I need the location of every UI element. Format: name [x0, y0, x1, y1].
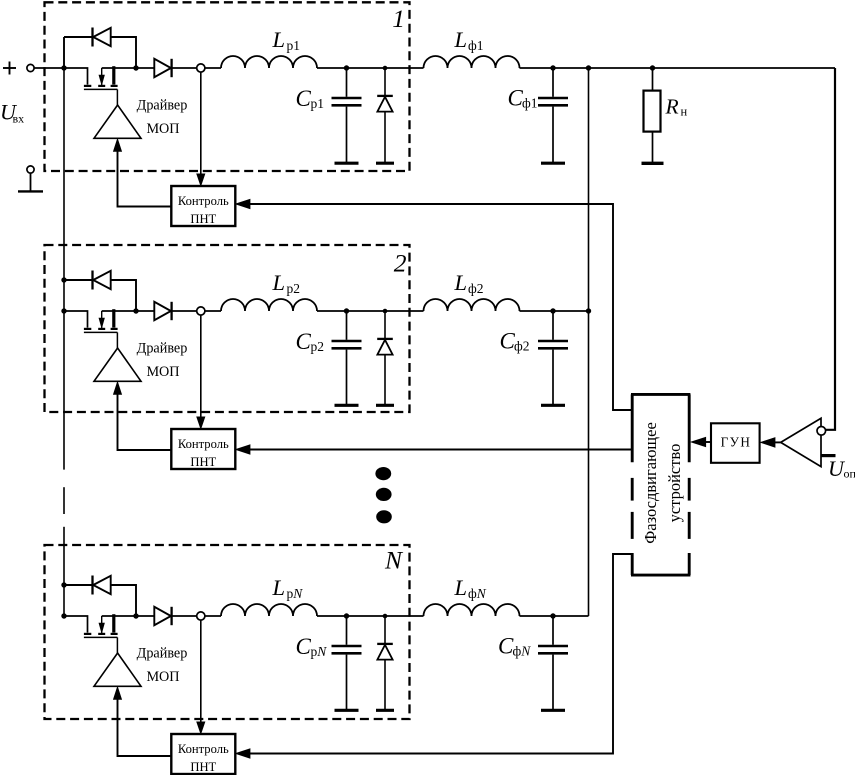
- label Cр2: [296, 329, 325, 354]
- svg-text:ф1: ф1: [468, 38, 484, 53]
- capacitor Cр1: [332, 68, 362, 163]
- capacitor Cф3: [538, 616, 568, 710]
- junction shunt diode top cell 2: [383, 309, 388, 314]
- wire source lead cell 3: [64, 616, 88, 633]
- wire comparator output to VCO: [761, 438, 781, 447]
- wire source lead cell 2: [64, 311, 88, 328]
- inductor Lф2 coil: [424, 299, 520, 311]
- svg-text:1: 1: [392, 4, 405, 33]
- label Драйвер МОП cell 3: [137, 646, 188, 686]
- capacitor Cр3: [332, 616, 362, 710]
- svg-text:ф1: ф1: [522, 96, 538, 111]
- wire cell 3 to filter inductor: [317, 615, 424, 617]
- svg-text:L: L: [272, 575, 286, 600]
- wire drain segment cell 2: [102, 310, 155, 312]
- wire phase shifter to control cell 2: [236, 445, 631, 454]
- svg-text:н: н: [681, 105, 688, 119]
- MOSFET driver amplifier cell 2: [94, 348, 141, 381]
- junction output bus cell 1: [586, 65, 591, 70]
- label Драйвер МОП cell 1: [137, 98, 188, 138]
- node switch output cell 1: [197, 64, 205, 72]
- label Lф1: [454, 27, 484, 53]
- resistor Rн: [642, 68, 664, 163]
- wire input bus vertical segment 1: [63, 68, 65, 470]
- input terminal plus sign: [3, 62, 16, 75]
- wire node to control cell 3: [197, 620, 205, 733]
- shunt diode VD2c: [376, 311, 394, 405]
- ellipsis continuation dots: [375, 467, 391, 523]
- wire node to control cell 2: [197, 315, 205, 428]
- svg-text:ф2: ф2: [514, 339, 530, 354]
- label Cф3: [498, 634, 531, 659]
- junction Cр2 top: [344, 308, 349, 313]
- control box Контроль ПНТ cell 2: [171, 429, 235, 469]
- MOSFET driver amplifier cell 1: [94, 105, 141, 138]
- label Драйвер МОП cell 2: [137, 341, 188, 381]
- junction flyback-drain cell 3: [133, 613, 138, 618]
- wire phase shifter to control cell 3: [236, 554, 631, 758]
- svg-text:р2: р2: [311, 339, 325, 354]
- svg-text:Драйвер: Драйвер: [137, 646, 188, 662]
- svg-text:C: C: [296, 86, 312, 111]
- junction input node cell 1: [61, 65, 66, 70]
- junction flyback-drain cell 1: [133, 65, 138, 70]
- wire flyback loop cell 3: [64, 585, 136, 616]
- phase shifter box Фазосдвигающее устройство: [631, 394, 690, 575]
- wire drain segment cell 3: [102, 615, 155, 617]
- label устройство: [665, 444, 684, 523]
- flyback diode VD1a: [93, 28, 111, 47]
- svg-text:МОП: МОП: [146, 121, 179, 137]
- wire input bus vertical segment 2: [63, 527, 65, 616]
- svg-text:р2: р2: [287, 281, 301, 296]
- label Lр1: [272, 27, 301, 53]
- svg-text:ПНТ: ПНТ: [190, 455, 216, 469]
- junction Cф1 top: [550, 65, 555, 70]
- junction bus-flyback cell 2: [61, 308, 66, 313]
- wire cell 2 to filter inductor: [317, 310, 424, 312]
- svg-text:ПНТ: ПНТ: [190, 760, 216, 774]
- wire node to control cell 1: [197, 72, 205, 185]
- label Lф2: [454, 270, 484, 296]
- node switch output cell 3: [197, 612, 205, 620]
- svg-text:МОП: МОП: [146, 669, 179, 685]
- svg-text:рN: рN: [287, 586, 304, 601]
- comparator inverting bubble: [817, 427, 826, 436]
- control box Контроль ПНТ cell 1: [171, 186, 235, 226]
- wire driver feed cell 2: [114, 382, 172, 450]
- svg-text:L: L: [272, 270, 286, 295]
- svg-text:ПНТ: ПНТ: [190, 212, 216, 226]
- shunt diode VD3c: [376, 616, 394, 710]
- junction Cр1 top: [344, 65, 349, 70]
- converter cell 1 dashed enclosure: [45, 2, 410, 171]
- svg-text:N: N: [384, 546, 404, 575]
- junction load resistor top: [650, 65, 655, 70]
- svg-text:рN: рN: [311, 644, 328, 659]
- wire node to inductor cell 1: [205, 67, 221, 69]
- wire diode to node cell 2: [172, 310, 197, 312]
- svg-text:L: L: [454, 575, 468, 600]
- junction shunt diode top cell 1: [383, 66, 388, 71]
- svg-text:ГУН: ГУН: [721, 434, 752, 449]
- capacitor Cф2: [538, 311, 568, 405]
- inductor Lр2 coil: [221, 299, 317, 311]
- svg-text:фN: фN: [513, 644, 532, 659]
- svg-text:2: 2: [394, 249, 407, 278]
- wire source lead cell 1: [64, 68, 88, 85]
- junction flyback-drain cell 2: [133, 308, 138, 313]
- series diode VD1b: [154, 59, 171, 77]
- wire drain segment cell 1: [102, 67, 155, 69]
- junction output bus cell 2: [586, 308, 591, 313]
- svg-text:Контроль: Контроль: [178, 742, 229, 756]
- svg-text:фN: фN: [468, 586, 487, 601]
- svg-text:оп: оп: [844, 467, 855, 481]
- svg-text:Фазосдвигающее: Фазосдвигающее: [641, 422, 660, 544]
- wire flyback loop cell 1: [64, 37, 136, 68]
- junction Cф3 top: [550, 613, 555, 618]
- flyback diode VD2a: [93, 271, 111, 290]
- label cell number N: [384, 546, 404, 575]
- capacitor Cф1: [538, 68, 568, 163]
- label Cф1: [508, 86, 538, 111]
- label Фазосдвигающее: [641, 422, 660, 544]
- converter cell 2 dashed enclosure: [45, 245, 410, 412]
- wire flyback loop cell 2: [64, 280, 136, 311]
- svg-text:ф2: ф2: [468, 281, 484, 296]
- wire input to bus: [34, 67, 64, 69]
- label Cр3: [296, 634, 328, 659]
- svg-text:C: C: [296, 329, 312, 354]
- wire input bus break segment: [63, 487, 65, 514]
- svg-text:МОП: МОП: [146, 364, 179, 380]
- wire driver feed cell 1: [114, 139, 172, 206]
- label Cф2: [500, 329, 530, 354]
- comparator reference input pin: [821, 454, 836, 457]
- wire diode to node cell 3: [172, 615, 197, 617]
- ground terminal circle: [27, 166, 34, 173]
- wire VCO to phase shifter: [692, 437, 712, 446]
- svg-text:Драйвер: Драйвер: [137, 341, 188, 357]
- label Uоп: [828, 456, 855, 481]
- svg-text:L: L: [454, 27, 468, 52]
- ground: [18, 173, 43, 191]
- control box Контроль ПНТ cell 3: [171, 734, 235, 774]
- node switch output cell 2: [197, 307, 205, 315]
- wire filter inductor to bus cell 3: [520, 615, 589, 617]
- MOSFET VT3: [84, 614, 118, 653]
- capacitor Cр2: [332, 311, 362, 405]
- svg-text:Контроль: Контроль: [178, 437, 229, 451]
- label cell number 1: [392, 4, 405, 33]
- label Cр1: [296, 86, 325, 111]
- label cell number 2: [394, 249, 407, 278]
- wire cell 1 to filter inductor: [317, 67, 424, 69]
- svg-text:р1: р1: [287, 38, 301, 53]
- label Uвх: [0, 100, 24, 126]
- svg-text:Драйвер: Драйвер: [137, 98, 188, 114]
- inductor Lф3 coil: [424, 604, 520, 616]
- inductor Lф1 coil: [424, 56, 520, 68]
- wire feedback right rail: [826, 68, 835, 430]
- wire node to inductor cell 2: [205, 310, 221, 312]
- label Lф3: [454, 575, 487, 601]
- svg-text:R: R: [665, 95, 679, 119]
- inductor Lр1 coil: [221, 56, 317, 68]
- shunt diode VD1c: [376, 68, 394, 163]
- junction flyback top cell 2: [61, 277, 66, 282]
- VCO box ГУН: [711, 423, 760, 463]
- converter cell 3 dashed enclosure: [45, 545, 410, 719]
- flyback diode VD3a: [93, 576, 111, 595]
- wire diode to node cell 1: [172, 67, 197, 69]
- wire filter inductor to bus cell 2: [520, 310, 589, 312]
- comparator amplifier U2: [781, 418, 821, 466]
- wire filter inductor to bus cell 1: [520, 67, 836, 69]
- label Lр2: [272, 270, 301, 296]
- wire phase shifter to control cell 1: [236, 199, 631, 410]
- wire driver feed cell 3: [114, 687, 172, 756]
- label Lр3: [272, 575, 304, 601]
- input terminal circle: [27, 64, 34, 71]
- svg-text:L: L: [272, 27, 286, 52]
- svg-text:L: L: [454, 270, 468, 295]
- junction shunt diode top cell 3: [383, 614, 388, 619]
- svg-text:Контроль: Контроль: [178, 194, 229, 208]
- wire output bus vertical x588: [588, 68, 590, 616]
- junction Cр3 top: [344, 613, 349, 618]
- wire node to inductor cell 3: [205, 615, 221, 617]
- series diode VD2b: [154, 302, 171, 320]
- svg-text:устройство: устройство: [665, 444, 684, 523]
- junction flyback top cell 3: [61, 582, 66, 587]
- svg-text:р1: р1: [311, 96, 325, 111]
- svg-text:C: C: [296, 634, 312, 659]
- MOSFET driver amplifier cell 3: [94, 653, 141, 686]
- inductor Lр3 coil: [221, 604, 317, 616]
- series diode VD3b: [154, 607, 171, 625]
- junction bus-flyback cell 3: [61, 613, 66, 618]
- label Rн: [665, 95, 688, 119]
- MOSFET VT1: [84, 66, 118, 105]
- MOSFET VT2: [84, 309, 118, 348]
- svg-text:вх: вх: [13, 112, 25, 126]
- junction Cф2 top: [550, 308, 555, 313]
